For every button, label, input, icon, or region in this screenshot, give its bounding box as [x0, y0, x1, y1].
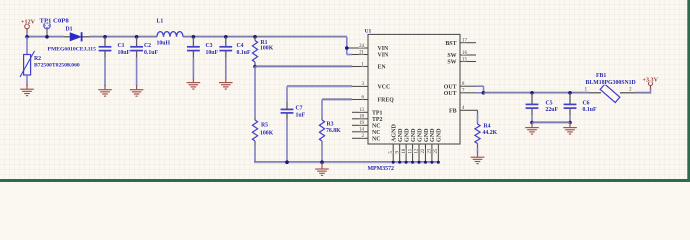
op IC U1 MPM3572 box: [368, 34, 460, 144]
svg-text:GND: GND: [430, 128, 436, 142]
svg-text:R5: R5: [261, 122, 268, 128]
pin 14 NC: [352, 131, 368, 133]
pin 22 GND: [424, 144, 426, 162]
svg-text:FB1: FB1: [596, 73, 606, 79]
ground (C3): [192, 79, 194, 83]
pin 15 SW: [460, 61, 476, 63]
node VIN junction: [345, 46, 349, 50]
svg-text:MPM3572: MPM3572: [368, 166, 395, 172]
svg-text:14: 14: [359, 128, 364, 133]
capacitor C5 22uF: [530, 91, 534, 95]
svg-text:GND: GND: [404, 128, 410, 142]
svg-text:10uH: 10uH: [157, 40, 171, 46]
svg-text:SW: SW: [447, 53, 456, 59]
svg-text:1uF: 1uF: [296, 112, 306, 118]
svg-text:TP1: TP1: [372, 111, 383, 117]
pin 21 VIN: [352, 54, 368, 56]
svg-text:24: 24: [359, 44, 364, 49]
svg-text:10uF: 10uF: [206, 50, 219, 56]
svg-text:23: 23: [428, 148, 433, 153]
node OUT junction: [482, 91, 486, 95]
ground (C1): [104, 85, 106, 90]
node C6 bottom junction: [568, 121, 572, 125]
diode D1 PMEG6010CEJ,115: [64, 36, 70, 38]
svg-text:0.1uF: 0.1uF: [237, 50, 251, 56]
svg-text:AGND: AGND: [392, 123, 398, 142]
pin 6 FREQ: [352, 99, 368, 101]
pin 12 GND: [418, 144, 420, 162]
svg-text:NC: NC: [372, 137, 381, 143]
power port +12V: [25, 24, 30, 29]
svg-text:R2: R2: [34, 56, 41, 62]
svg-text:19: 19: [359, 121, 364, 126]
ground (R2): [26, 85, 28, 90]
capacitor C1 10uF: [103, 35, 107, 39]
pin 1 EN: [352, 66, 368, 68]
svg-text:L1: L1: [157, 19, 164, 25]
svg-text:C5: C5: [546, 101, 553, 107]
wire FREQ net: [322, 98, 352, 100]
capacitor C6 0.1uF: [568, 91, 572, 95]
power port +3.3V: [650, 86, 652, 89]
svg-text:TP1 C0P8: TP1 C0P8: [40, 17, 70, 24]
svg-text:10: 10: [402, 148, 407, 153]
pin 18 TP2: [352, 118, 368, 120]
pin 23 GND: [431, 144, 433, 162]
wire EN net: [255, 65, 352, 67]
svg-text:BLM18PG300SN1D: BLM18PG300SN1D: [586, 80, 636, 86]
svg-text:+3.3V: +3.3V: [643, 77, 659, 83]
svg-text:12: 12: [415, 148, 420, 153]
svg-text:44.2K: 44.2K: [483, 130, 498, 136]
svg-text:+12V: +12V: [21, 20, 36, 26]
svg-text:VIN: VIN: [378, 46, 390, 52]
svg-text:FB: FB: [449, 109, 457, 115]
pin 13 TP1: [352, 111, 368, 113]
pin 8 OUT: [460, 85, 476, 87]
svg-text:C7: C7: [296, 106, 303, 112]
svg-text:0.1uF: 0.1uF: [583, 107, 597, 113]
svg-text:17: 17: [462, 39, 467, 44]
pin 9 GND: [399, 144, 401, 162]
wire D1 cathode to L1: [90, 35, 158, 37]
wire L1 to U1 VIN: [183, 35, 347, 37]
svg-text:U1: U1: [365, 29, 372, 35]
svg-text:C2: C2: [144, 43, 151, 49]
grid background: [0, 0, 690, 182]
svg-text:NC: NC: [372, 124, 381, 130]
svg-text:FREQ: FREQ: [378, 98, 395, 104]
svg-text:GND: GND: [411, 128, 417, 142]
varistor R2: [26, 37, 28, 55]
svg-text:GND: GND: [437, 128, 443, 142]
pin 24 VIN: [352, 47, 368, 49]
pin 17 BST: [460, 42, 476, 44]
svg-text:C3: C3: [206, 43, 213, 49]
svg-text:R4: R4: [484, 123, 491, 129]
svg-text:C4: C4: [237, 43, 244, 49]
wire OUT net: [484, 91, 590, 93]
svg-text:16: 16: [462, 51, 467, 56]
ferrite bead FB1: [589, 92, 601, 94]
ground (C4): [225, 79, 227, 83]
ground (C2): [136, 85, 138, 90]
pin 25 GND: [437, 144, 439, 162]
test point TP1: [44, 22, 51, 29]
ground (C6): [569, 123, 571, 128]
pin 3 VCC: [352, 85, 368, 87]
wire FB1 to +3.3V: [635, 91, 651, 93]
wire VCC net: [287, 85, 352, 87]
svg-text:D1: D1: [66, 27, 73, 33]
wire bottom ground bus: [254, 161, 438, 163]
svg-text:25: 25: [434, 148, 439, 153]
svg-text:TP2: TP2: [372, 117, 383, 123]
svg-text:VCC: VCC: [378, 85, 391, 91]
svg-text:GND: GND: [417, 128, 423, 142]
svg-text:GND: GND: [398, 128, 404, 142]
wire VIN drop: [346, 37, 348, 55]
capacitor C4 0.1uF: [224, 35, 228, 39]
svg-text:21: 21: [359, 50, 364, 55]
node TP1 junction: [45, 35, 49, 39]
green frame bottom edge: [0, 179, 690, 182]
svg-text:22: 22: [421, 148, 426, 153]
inductor L1 10uH: [157, 32, 183, 37]
svg-text:100K: 100K: [260, 130, 274, 136]
green frame right edge: [687, 0, 690, 182]
svg-text:NC: NC: [372, 130, 381, 136]
capacitor C2 0.1uF: [135, 35, 139, 39]
ground (bus): [321, 162, 323, 169]
ground (R4): [477, 152, 479, 158]
svg-text:100K: 100K: [260, 46, 274, 52]
pin 11 GND: [412, 144, 414, 162]
svg-text:B72500T0250K060: B72500T0250K060: [34, 63, 80, 69]
svg-text:15: 15: [462, 57, 467, 62]
svg-text:18: 18: [359, 115, 364, 120]
svg-text:C6: C6: [583, 101, 590, 107]
resistor R5 100K: [254, 67, 256, 118]
svg-text:C1: C1: [118, 43, 125, 49]
pin 19 NC: [352, 124, 368, 126]
svg-text:SW: SW: [447, 60, 456, 66]
resistor R3 76.8K: [321, 100, 323, 118]
svg-text:10uF: 10uF: [118, 50, 131, 56]
resistor R1 100K: [253, 35, 257, 39]
pin 16 SW: [460, 54, 476, 56]
pin 2 NC: [352, 137, 368, 139]
svg-text:0.1uF: 0.1uF: [144, 50, 158, 56]
node EN junction: [253, 65, 257, 69]
svg-text:BST: BST: [445, 41, 456, 47]
wire C5-C6 ground bus: [532, 121, 570, 123]
svg-text:OUT: OUT: [444, 91, 457, 97]
svg-text:11: 11: [408, 148, 413, 153]
svg-text:1: 1: [585, 86, 588, 92]
ground (C5): [531, 123, 533, 128]
node +12V junction: [25, 35, 29, 39]
svg-text:22uF: 22uF: [546, 107, 559, 113]
wire +12V to D1 anode: [26, 33, 28, 37]
svg-text:76.8K: 76.8K: [326, 128, 341, 134]
svg-text:EN: EN: [378, 65, 387, 71]
node C5 bottom junction: [530, 121, 534, 125]
resistor R4 44.2K: [476, 109, 478, 111]
wire OUT pins join: [476, 85, 484, 87]
svg-text:R3: R3: [327, 121, 334, 127]
svg-text:GND: GND: [424, 128, 430, 142]
pin 10 GND: [405, 144, 407, 162]
svg-text:2: 2: [629, 86, 632, 92]
capacitor C3 10uF: [192, 35, 196, 39]
pin 7 OUT: [460, 92, 476, 94]
svg-text:VIN: VIN: [378, 53, 390, 59]
capacitor C7 1uF: [286, 86, 288, 101]
svg-text:PMEG6010CEJ,115: PMEG6010CEJ,115: [48, 46, 97, 52]
svg-text:OUT: OUT: [444, 84, 457, 90]
pin 5 AGND: [392, 144, 394, 162]
svg-text:13: 13: [359, 108, 364, 113]
pin 4 FB: [460, 109, 476, 111]
